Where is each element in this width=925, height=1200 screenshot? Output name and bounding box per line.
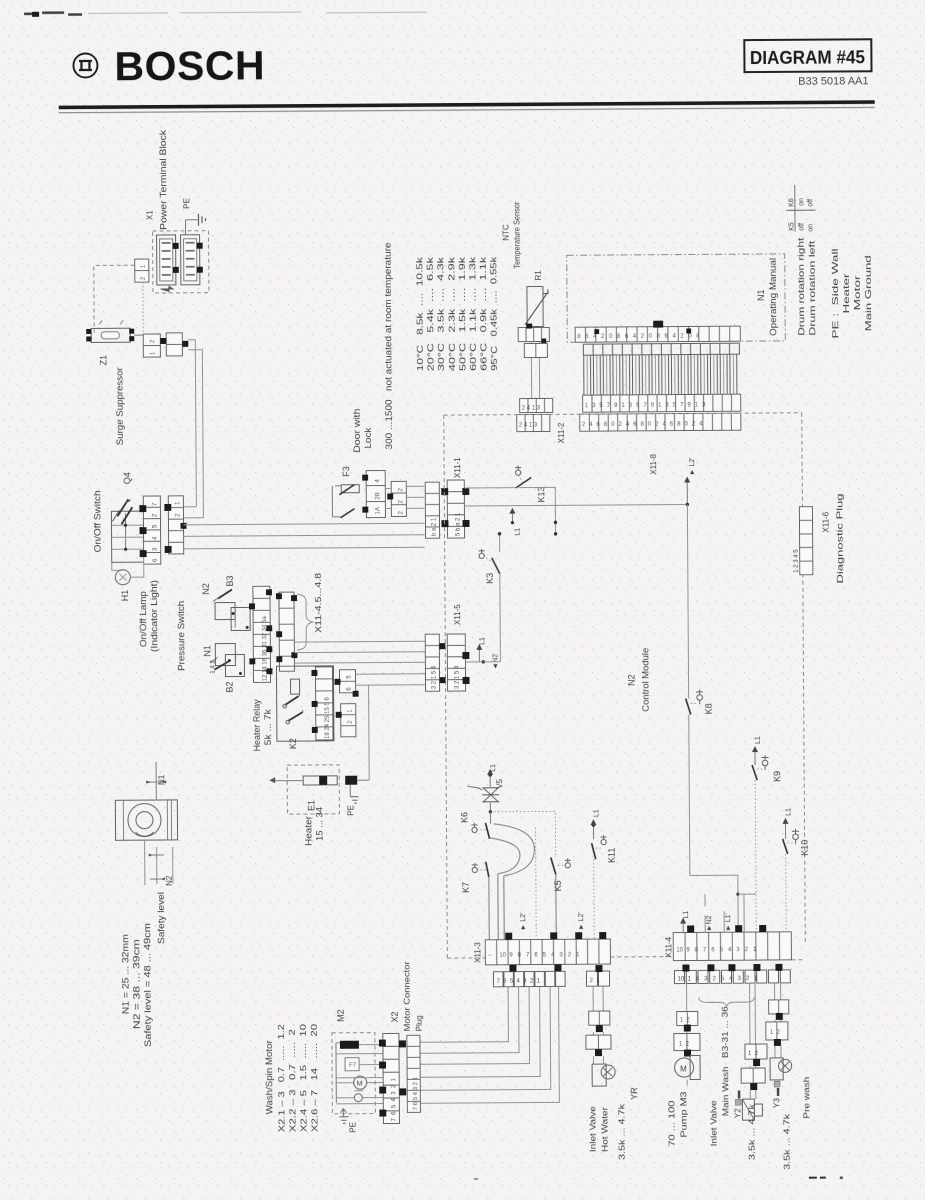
switch K10 [782,818,799,932]
svg-text:24680246802468024: 24680246802468024 [582,421,707,428]
svg-text:Control Module: Control Module [640,648,650,712]
relay K2 heater relay [276,666,333,741]
connector K2 out lower [336,691,359,737]
connector On/Off switch pin strip [139,496,160,564]
door lock F3 component [332,471,385,518]
resistor R1 NTC sensor [525,286,548,326]
NTC resistance table [415,255,499,371]
svg-text:NTC: NTC [502,224,511,241]
motor M2 wash/spin [332,1033,384,1114]
svg-text:L1: L1 [479,637,486,645]
wire pressure sw to X11-5 a [294,640,425,643]
svg-text:Lock: Lock [363,427,373,449]
ground PE at motor [339,1109,348,1124]
X1 arrow mark [161,286,173,291]
svg-text:F3: F3 [341,466,351,477]
svg-text:1 4 2: 1 4 2 [210,660,216,674]
svg-text:K5: K5 [789,222,796,231]
wire F3 to X11-1 [385,486,424,508]
switch K9 [752,746,770,932]
svg-text:N2 = 38 ... 39cm: N2 = 38 ... 39cm [131,939,142,1029]
svg-text:X11-2: X11-2 [557,422,566,443]
connector R1 plug a [518,323,549,343]
Bosch logo emblem [73,53,97,77]
wire Z1 to On/Off switch [182,340,203,518]
svg-text:Motor Connector: Motor Connector [402,961,411,1031]
node L2' arrow [684,476,690,506]
svg-text:Diagnostic Plug: Diagnostic Plug [835,493,845,583]
svg-text:1 2: 1 2 [679,1042,690,1048]
svg-text:B33 5018 AA1: B33 5018 AA1 [798,75,868,87]
svg-text:3 2 1 5 4: 3 2 1 5 4 [454,665,460,689]
svg-text:K6: K6 [788,198,795,207]
pressure switch N2 contact [213,589,250,630]
pressure switch N1 contact [210,643,244,676]
svg-text:L1: L1 [683,911,690,919]
svg-text:Q4: Q4 [122,472,132,484]
switch K5 [551,857,572,939]
switch K8 [684,504,704,875]
svg-text:Door with: Door with [352,409,362,453]
connector On/Off output plug [164,496,186,554]
svg-text:K5: K5 [553,880,563,891]
connector K2 pin strip [311,667,332,740]
safety level chamber drawing [115,800,177,840]
X11-4 lower pin boxes [674,964,790,984]
switch K3 [479,532,503,662]
svg-text:X11-4: X11-4 [664,936,673,957]
svg-text:Safety level: Safety level [156,892,166,944]
control module N2 dashed outline [444,413,806,962]
connector X11-6 diagnostic plug [793,507,812,575]
timer N1 operating manual box [567,254,786,342]
svg-text:X11-8: X11-8 [649,453,658,474]
svg-text:X1: X1 [145,210,154,220]
svg-text:10 1 4 3 2 5 4 3: 10 1 4 3 2 5 4 3 2 1 [678,976,759,983]
node V5 junction [489,810,492,813]
svg-text:M: M [357,1081,363,1088]
svg-text:L1: L1 [593,809,600,817]
svg-text:Heater Relay: Heater Relay [252,699,262,752]
svg-text:Main Ground: Main Ground [864,255,874,331]
svg-text:5k ... 7k: 5k ... 7k [263,709,273,746]
svg-text:►N2: ►N2 [706,915,713,931]
svg-text:10 9 8 7 6 5 4 3: 10 9 8 7 6 5 4 3 2 1 [499,952,580,959]
svg-text:Drum rotation right: Drum rotation right [797,237,807,336]
scan artifact bottom right [474,1175,843,1181]
switch K6 [471,812,490,839]
svg-text:► L1’: ► L1’ [725,913,732,932]
svg-text:Heater: Heater [842,273,851,314]
svg-text:N2: N2 [626,674,636,686]
svg-text:66°C 0.9k .... 1.1k: 66°C 0.9k .... 1.1k [479,255,489,371]
ground PE at heater [350,785,358,804]
svg-text:L1: L1 [785,808,792,816]
wire pressure sw to X11-5 b [294,651,425,654]
connector X11-5 [425,634,469,691]
svg-text:60°C 1.1k .... 1.3k: 60°C 1.1k .... 1.3k [468,255,478,371]
ground PE at X1 [185,214,205,235]
svg-text:5 b a 2 1: 5 b a 2 1 [455,512,461,536]
X11-3 lower pin boxes [493,964,609,987]
svg-text:300 ...1500 not actuated at: 300 ...1500 not actuated at room tempera… [383,242,394,449]
svg-text:18 24 25 15 5 6: 18 24 25 15 5 6 [325,697,331,739]
surge suppressor Z1 [86,320,134,342]
connector K2 out upper [334,670,355,693]
svg-text:Power Terminal Block: Power Terminal Block [158,129,169,230]
connector pair right of Z1 [134,333,188,357]
svg-text:2 4 1 3: 2 4 1 3 [522,405,541,411]
svg-text:off: off [807,199,814,207]
svg-text:X11-1: X11-1 [453,457,462,478]
DIAGRAM #45 box [744,39,871,88]
connector timer strip [575,326,740,342]
heater E1 [269,765,369,815]
svg-text:X2.1 – 3 0.7 ..... 1.2: X2.1 – 3 0.7 ..... 1.2 [277,1023,287,1132]
connector pressure switch plug column [276,592,298,671]
switch K7 [472,862,490,940]
svg-text:X2.6 – 7 14 ..... 20: X2.6 – 7 14 ..... 20 [310,1023,320,1132]
connector X11-4 [673,932,791,961]
svg-text:Drum rotation left: Drum rotation left [808,239,818,335]
connector X11-8 bottom row [580,413,741,431]
svg-text:L1: L1 [755,736,762,744]
connector X1 Power Terminal Block [153,231,209,293]
wire dashed feed to X1 connector [94,265,143,333]
svg-text:K7: K7 [461,882,471,893]
svg-text:on: on [808,224,815,232]
connector pressure switch strip [249,586,273,682]
X11-3 top contact marks [505,932,606,940]
svg-text:On/Off Switch: On/Off Switch [92,490,102,552]
svg-text:2B: 2B [375,492,381,499]
svg-text:X11-5: X11-5 [453,604,462,625]
switch K13 [515,466,533,488]
svg-text:H1: H1 [120,590,130,602]
wire R1 to X11-2 [531,326,539,398]
wire dotted K6 branch [535,828,538,937]
timer cam bank [583,343,740,431]
connector X11-1 [425,480,469,538]
svg-text:on: on [798,198,805,206]
svg-text:Plug: Plug [415,1015,424,1031]
svg-text:Wash/Spin Motor: Wash/Spin Motor [264,1040,274,1114]
svg-text:X2.4 – 5 1.5 ..... 10: X2.4 – 5 1.5 ..... 10 [299,1023,309,1132]
wire K2 to X11-5 e [356,684,426,686]
wire K8 to X11-4 [690,875,756,932]
svg-text:3 2 1 5 4: 3 2 1 5 4 [431,665,437,689]
wire On/Off to X11-1 N [184,535,425,537]
scan artifact top edge [24,9,426,17]
connector X2 plug [407,1035,421,1112]
dimension N1 [146,762,166,800]
connector X11-8 top row [583,394,741,412]
svg-text:1 2 3 4 5: 1 2 3 4 5 [794,549,800,573]
svg-text:K13: K13 [536,486,546,502]
svg-text:L1: L1 [490,764,497,772]
svg-text:70 ... 100: 70 ... 100 [667,1100,676,1147]
svg-text:Inlet Valve: Inlet Valve [588,1105,597,1152]
svg-text:X11-3: X11-3 [473,942,482,963]
wire On/Off to X11-1 L [183,523,424,525]
svg-text:8642086420864208: 8642086420864208 [577,333,704,340]
X1 contact marks [173,243,203,273]
svg-text:Pump M3: Pump M3 [679,1091,688,1138]
switch Q4 On/Off [111,511,143,562]
svg-text:N1: N1 [756,289,766,301]
timer strip contact marks [594,320,691,334]
svg-text:M: M [680,1065,687,1074]
svg-text:X11-4.5...4.8: X11-4.5...4.8 [314,572,323,633]
connector X11-2 [517,398,553,431]
svg-text:On/Off Lamp: On/Off Lamp [138,591,148,647]
svg-text:50°C 1.5k .... 1.9k: 50°C 1.5k .... 1.9k [458,255,468,371]
svg-text:10 9 8 7 6 5 4 3: 10 9 8 7 6 5 4 3 2 1 [676,947,757,954]
svg-text:20°C 5.4k .... 6.5k: 20°C 5.4k .... 6.5k [426,256,436,372]
wire K6 arc outer [493,824,534,876]
svg-text:2 1: 2 1 [590,978,601,984]
svg-text:N1 = 25 ... 32mm: N1 = 25 ... 32mm [120,934,131,1014]
svg-text:(Indicator Light): (Indicator Light) [149,580,159,652]
svg-text:7 6 5 4 3 2 1: 7 6 5 4 3 2 1 [497,978,541,984]
wire X11-1 to L2 node [464,505,687,506]
connector X11-3 [485,939,610,965]
svg-text:K9: K9 [772,771,782,782]
svg-text:X2: X2 [390,1011,400,1022]
connector 2-pin at X1 [135,259,149,282]
svg-text:13579135791357913: 13579135791357913 [585,402,710,409]
brace B3 pins [699,997,755,1006]
svg-text:Motor: Motor [853,275,862,311]
svg-text:Operating Manual: Operating Manual [768,258,779,336]
svg-text:7 6 5 4 3 2 1: 7 6 5 4 3 2 1 [413,1076,419,1110]
svg-text:–: – [488,953,497,959]
svg-text:R1: R1 [534,270,543,281]
svg-text:Hot Water: Hot Water [600,1107,609,1152]
dimension N2 [145,840,173,885]
brace X11-4.5 4.8 [297,594,313,650]
svg-text:3.5k ... 4.7k: 3.5k ... 4.7k [782,1112,791,1169]
svg-text:Pressure Switch: Pressure Switch [176,601,186,671]
wire pressure sw to X11-5 c [294,661,425,664]
svg-text:K2: K2 [288,738,298,749]
svg-text:15 ... 34: 15 ... 34 [314,807,324,841]
wire stubs above X11-4 [705,894,744,932]
wire K13 to node [533,487,557,535]
svg-text:Y3 ▬▨: Y3 ▬▨ [772,1080,781,1108]
svg-text:Safety level = 48 ... 49cm: Safety level = 48 ... 49cm [142,923,153,1047]
svg-text:1A: 1A [375,507,381,514]
svg-text:DIAGRAM #45: DIAGRAM #45 [750,46,865,68]
wire K2 to X11-5 d [355,673,425,675]
svg-text:2 4 1 3: 2 4 1 3 [519,422,538,428]
node L1 arrow at X11-4 [680,918,686,933]
svg-text:off: off [799,223,806,231]
inlet valve hot water YR chain [586,986,616,1086]
table K5 K6 states [786,185,815,232]
wire arcs down to X11-3 [498,874,504,940]
svg-text:L1: L1 [515,528,522,536]
label Door with Lock [352,409,373,453]
svg-text:3.5k ... 4.7k: 3.5k ... 4.7k [747,1103,756,1160]
svg-text:K11: K11 [607,848,617,863]
pump M3 chain [674,983,701,1085]
wire On/Off spare [184,547,425,549]
svg-text:30°C 3.5k .... 4.3k: 30°C 3.5k .... 4.3k [436,256,446,372]
svg-text:K8: K8 [704,703,714,714]
svg-text:1 2: 1 2 [680,1017,691,1023]
switch K11 [590,819,607,939]
pre wash valve Y3 chain [766,983,792,1080]
svg-text:Temperature Sensor: Temperature Sensor [512,201,521,268]
svg-text:B2: B2 [225,681,235,692]
svg-text:PE : Side Wall: PE : Side Wall [831,248,841,338]
header rule [59,100,875,113]
connector F3 plug [387,481,406,516]
connector X2 strip [379,1033,407,1123]
svg-text:K3: K3 [485,573,495,584]
svg-text:► L2’: ► L2’ [689,457,696,476]
svg-text:► L2’: ► L2’ [520,912,527,931]
svg-text:M2: M2 [336,1009,346,1022]
svg-text:N1: N1 [202,645,212,657]
svg-text:► L2’: ► L2’ [578,912,585,931]
svg-text:b a 2 1: b a 2 1 [431,517,437,536]
wire V5 gate dotted to K5 [490,811,555,857]
svg-text:PE: PE [182,198,191,209]
wire K6 arc inner [490,838,521,874]
svg-text:7 6 5 4 3 2 1: 7 6 5 4 3 2 1 [391,1077,397,1121]
svg-text:1 2: 1 2 [748,1051,759,1057]
svg-text:N2: N2 [165,875,174,886]
svg-text:Pre wash: Pre wash [802,1077,811,1119]
svg-text:N1: N1 [157,774,166,785]
svg-text:K10: K10 [800,840,810,856]
wire X11-1 out a [464,487,516,489]
svg-text:Surge Suppressor: Surge Suppressor [114,367,125,445]
svg-text:Heater: Heater [303,816,313,846]
svg-text:95°C 0.45k .... 0.55k: 95°C 0.45k .... 0.55k [489,255,499,370]
svg-text:1 2: 1 2 [770,1030,781,1036]
svg-text:K6: K6 [459,812,469,823]
triac V5 [467,769,499,812]
svg-text:BOSCH: BOSCH [114,42,265,89]
connector R1 plug b [524,343,547,357]
lamp H1 On/Off indicator [112,557,144,585]
Q4 switch blades [112,499,132,524]
svg-text:N2: N2 [201,583,211,595]
svg-text:Inlet Valve: Inlet Valve [709,1100,718,1147]
svg-text:40°C 2.3k .... 2.9k: 40°C 2.3k .... 2.9k [447,255,457,371]
svg-text:Z1: Z1 [98,355,108,366]
svg-text:B3: B3 [225,575,235,586]
svg-text:X2.2 – 3 0.7 ..... 2: X2.2 – 3 0.7 ..... 2 [288,1028,298,1132]
node L1 arrow at K13 [509,508,515,525]
svg-text:F7: F7 [349,1063,357,1069]
node L1 arrow at X11-5 [465,644,500,664]
svg-text:PE: PE [348,1122,357,1133]
node junction pressure wires [239,626,249,675]
wire fan X11-3 to motor plug [420,986,560,1103]
svg-text:V5: V5 [495,778,504,788]
svg-text:X11-6: X11-6 [821,511,830,532]
svg-text:Main Wash B3-31 ... 36: Main Wash B3-31 ... 36 [721,1006,731,1117]
wire K2 to heater [368,685,371,780]
inlet valve Y2 chain [741,983,768,1120]
svg-text:PE: PE [346,805,355,816]
svg-text:YR: YR [629,1087,639,1100]
X11-4 top contact marks [687,925,766,933]
svg-text:Y2 ▨▬: Y2 ▨▬ [733,1091,742,1119]
svg-text:10°C 8.5k .... 10.5k: 10°C 8.5k .... 10.5k [415,256,425,372]
svg-text:3.5k ... 4.7k: 3.5k ... 4.7k [617,1103,626,1160]
